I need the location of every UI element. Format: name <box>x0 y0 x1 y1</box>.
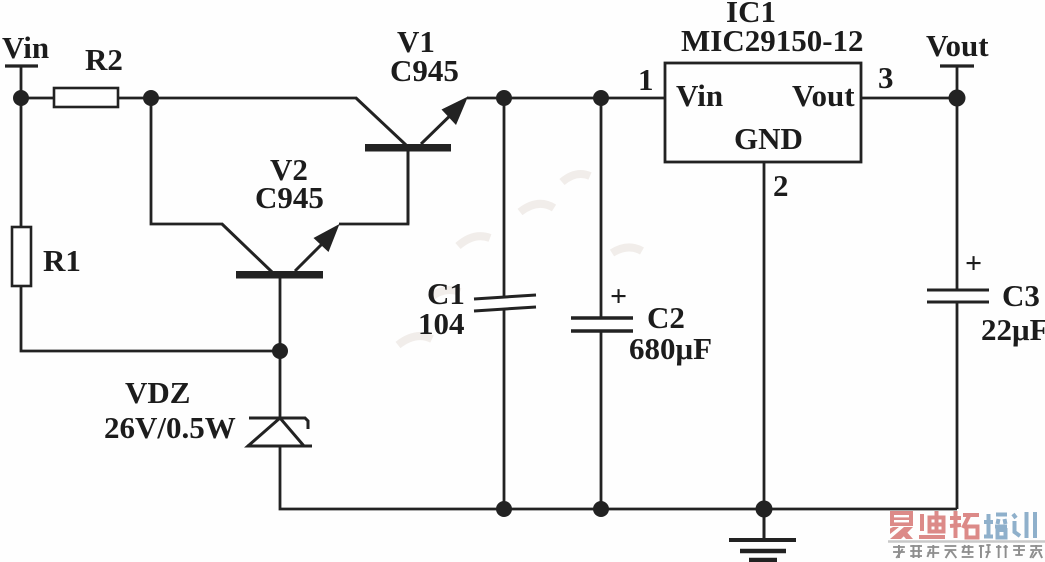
wire V2 base down to node A <box>279 278 282 351</box>
terminal Vin bar <box>5 64 38 67</box>
wire Vout terminal drop <box>956 66 959 98</box>
char yi (salmon) <box>890 511 913 539</box>
small gray slogan characters <box>893 545 1042 558</box>
svg-text:22μF: 22μF <box>981 312 1045 347</box>
ground <box>729 509 796 560</box>
svg-text:C945: C945 <box>390 53 459 88</box>
svg-text:+: + <box>610 280 627 313</box>
svg-text:MIC29150-12: MIC29150-12 <box>681 23 864 58</box>
wire left branch down to R1 <box>20 98 23 227</box>
svg-text:2: 2 <box>773 168 789 203</box>
wire junction-to-V1 collector <box>151 97 357 100</box>
svg-text:Vin: Vin <box>676 78 723 113</box>
wire zener to bottom rail <box>280 446 957 509</box>
svg-text:1: 1 <box>638 62 654 97</box>
svg-text:C2: C2 <box>647 300 685 335</box>
wire node A to zener <box>279 351 282 418</box>
char di (salmon) <box>919 511 945 537</box>
capacitor C1 <box>474 295 536 311</box>
wire C2 bottom drop <box>600 331 603 509</box>
svg-text:104: 104 <box>418 306 465 341</box>
zener diode VDZ <box>247 418 312 446</box>
wire junction down to V2 collector <box>151 98 223 224</box>
wire C3 bottom riser <box>956 302 959 509</box>
svg-text:R1: R1 <box>43 243 81 278</box>
svg-text:VDZ: VDZ <box>125 375 190 410</box>
svg-text:Vin: Vin <box>2 30 49 65</box>
wire C3 top drop <box>956 98 959 290</box>
wire top rail Vin-to-R2 <box>21 66 55 98</box>
wire C1 bottom drop <box>503 309 506 509</box>
wire V1 emitter-to-IC pin1 <box>467 97 666 100</box>
capacitor C2 <box>571 318 633 331</box>
capacitor C3 <box>927 290 989 302</box>
svg-text:C3: C3 <box>1002 278 1040 313</box>
svg-text:C945: C945 <box>255 180 324 215</box>
wire V2 emitter to V1 base <box>339 152 408 224</box>
char tuo (salmon) <box>950 511 979 538</box>
svg-text:Vout: Vout <box>926 28 989 63</box>
svg-text:+: + <box>965 247 982 280</box>
svg-text:Vout: Vout <box>792 78 855 113</box>
IC U1 box MIC29150-12 <box>665 63 861 162</box>
char xun (blue) <box>1013 512 1035 538</box>
transistor V1 <box>356 97 468 225</box>
wire R2-to-junction <box>118 97 152 100</box>
transistor V2 <box>222 224 340 279</box>
wire R1 bottom to node A <box>21 286 280 351</box>
svg-text:R2: R2 <box>85 42 123 77</box>
watermark logo <box>888 511 1045 558</box>
terminal Vout bar <box>940 64 974 67</box>
wire IC pin3-to-Vout <box>861 97 957 100</box>
svg-text:3: 3 <box>878 60 894 95</box>
divider <box>888 540 1045 543</box>
svg-text:GND: GND <box>734 121 803 156</box>
resistor R1 <box>12 227 31 286</box>
faint ghost watermark (decorative) <box>398 174 642 345</box>
char pei (blue) <box>984 514 1007 538</box>
svg-text:26V/0.5W: 26V/0.5W <box>104 410 236 445</box>
wire IC GND pin 2 <box>763 162 766 509</box>
node junction dots <box>13 90 966 518</box>
wire C1 top drop <box>503 98 506 297</box>
svg-text:680μF: 680μF <box>629 331 712 366</box>
wire C2 top drop <box>600 98 603 318</box>
resistor R2 <box>54 88 118 107</box>
